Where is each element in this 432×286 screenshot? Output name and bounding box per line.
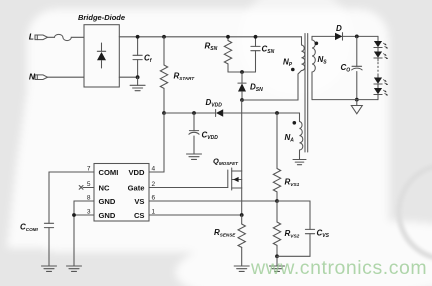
ground below C_COMI — [42, 266, 57, 271]
node C_SN top — [254, 35, 258, 39]
svg-text:4: 4 — [152, 166, 156, 173]
LED1 — [374, 41, 382, 47]
dotted continuation — [377, 63, 379, 76]
node Cf+ junction — [136, 35, 140, 39]
terminal L — [35, 35, 48, 40]
ground open triangle below C_O — [356, 100, 358, 106]
node drain junction — [240, 98, 244, 102]
wire VDD node to D_VDD — [164, 112, 216, 114]
svg-text:GND: GND — [99, 197, 116, 206]
wire pin3 GND — [74, 215, 94, 266]
winding N_A — [300, 113, 303, 160]
IC U1 box — [94, 164, 149, 222]
node VDD junction — [162, 111, 166, 115]
svg-text:1: 1 — [152, 209, 156, 216]
svg-text:N: N — [29, 71, 36, 81]
wire pin4 VDD — [149, 113, 164, 172]
wire DC+ rail — [119, 36, 301, 38]
svg-text:VS: VS — [134, 197, 144, 206]
NC x mark — [79, 186, 83, 190]
svg-text:CS: CS — [134, 211, 145, 220]
node R_SN top — [226, 35, 230, 39]
node VS junction — [275, 199, 279, 203]
ground below N_A — [293, 160, 306, 165]
node R_START top — [162, 35, 166, 39]
wire snubber bottom — [228, 71, 256, 73]
LED4 — [374, 88, 382, 94]
resistor R_SENSE — [238, 215, 245, 266]
wire pin8 GND — [74, 201, 94, 215]
svg-text:Bridge-Diode: Bridge-Diode — [78, 13, 125, 22]
wire secondary top — [312, 35, 335, 37]
node N_A polarity dot — [293, 121, 297, 125]
bridge internal diode — [97, 43, 106, 68]
node snubber/D_SN — [240, 70, 244, 74]
transistor Q_MOSFET — [228, 100, 242, 215]
node C_O bottom — [355, 98, 359, 102]
capacitor C_VS — [277, 201, 315, 256]
node N_S polarity dot — [315, 42, 319, 46]
resistor R_VS2 — [273, 201, 280, 256]
svg-text:L: L — [29, 32, 34, 42]
svg-text:NC: NC — [99, 184, 110, 193]
ground below GND pins — [67, 266, 82, 271]
wire secondary bottom rail — [312, 99, 378, 101]
node R_VS2 bottom — [275, 254, 279, 258]
transformer core — [305, 34, 308, 153]
LED2 — [374, 52, 382, 58]
diode D — [335, 33, 378, 40]
node C_VDD top — [192, 111, 196, 115]
capacitor C_COMI — [44, 223, 53, 265]
capacitor C_SN — [251, 37, 260, 72]
capacitor Cf — [133, 37, 142, 77]
diode D_SN — [238, 72, 246, 100]
node CS/source junction — [240, 213, 244, 217]
LED3 — [374, 78, 382, 84]
svg-text:COMI: COMI — [99, 168, 119, 177]
svg-text:7: 7 — [87, 166, 91, 173]
wire pin7 COMI to C_COMI — [49, 172, 94, 223]
wire DC- to Cf — [119, 76, 137, 78]
capacitor C_O — [352, 36, 362, 99]
background arc right — [399, 165, 432, 259]
node Cf- junction — [136, 75, 140, 79]
wire drain to primary — [242, 71, 302, 101]
svg-text:3: 3 — [87, 209, 91, 216]
ground below Cf — [137, 77, 139, 85]
capacitor C_VDD — [189, 113, 199, 154]
fuse F1 — [48, 34, 85, 40]
bridge rectifier BD1 box — [84, 25, 119, 87]
resistor R_SN — [224, 37, 231, 72]
svg-text:VDD: VDD — [128, 168, 145, 177]
LED string — [374, 36, 382, 99]
terminal N — [35, 75, 48, 80]
node C_O top — [355, 35, 359, 39]
wire pin5 NC — [83, 187, 94, 189]
winding N_S — [312, 36, 315, 99]
node GND junction — [72, 213, 76, 217]
svg-text:Gate: Gate — [128, 184, 145, 193]
ground below R_SENSE — [234, 266, 249, 271]
svg-text:D: D — [336, 24, 342, 33]
LED emission arrows — [383, 43, 388, 95]
ground below C_VDD — [187, 154, 202, 159]
resistor R_START — [160, 37, 167, 113]
svg-text:www.cntronics.com: www.cntronics.com — [250, 257, 427, 279]
svg-text:GND: GND — [99, 211, 116, 220]
wire pin1 CS — [149, 214, 242, 216]
node R_VS1 top — [275, 111, 279, 115]
winding N_P — [302, 37, 305, 71]
svg-text:6: 6 — [152, 195, 156, 202]
resistor R_VS1 — [273, 113, 280, 201]
wire pin6 VS — [149, 200, 277, 202]
ground below R_VS2 — [276, 256, 278, 266]
wire pin2 Gate — [149, 187, 228, 189]
wire N to bridge — [48, 76, 85, 78]
svg-text:5: 5 — [87, 181, 91, 188]
diode D_VDD — [216, 109, 300, 116]
background light circle top center — [240, 0, 352, 96]
svg-text:2: 2 — [152, 181, 156, 188]
node N_P polarity dot — [291, 68, 295, 72]
svg-text:8: 8 — [87, 195, 91, 202]
